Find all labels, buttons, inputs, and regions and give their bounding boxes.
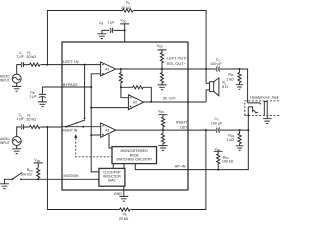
wire left input: [17, 65, 101, 75]
switch right input mux: [62, 126, 101, 128]
rail bypass vertical: [91, 87, 99, 172]
capacitor CB bypass: [39, 94, 46, 97]
speaker: [206, 69, 210, 102]
wire LEFT OUT external: [188, 69, 248, 103]
svg-text:A2: A2: [133, 100, 137, 104]
svg-text:20 kΩ: 20 kΩ: [27, 55, 37, 59]
svg-text:1 kΩ: 1 kΩ: [226, 138, 234, 142]
headphone jack dashed box: [245, 101, 280, 116]
audio input source right: [12, 137, 21, 146]
op-amp A1: [101, 62, 116, 76]
resistor Ri left: [30, 63, 41, 66]
ground RPL: [236, 85, 243, 90]
svg-text:100 kΩ: 100 kΩ: [20, 173, 32, 177]
svg-text:BYPASS: BYPASS: [63, 82, 78, 87]
svg-text:20 kΩ: 20 kΩ: [121, 6, 131, 10]
wire A2 plus input: [91, 107, 128, 109]
capacitor CO left: [217, 66, 220, 71]
wire HP-IN external with pull-up: [188, 107, 248, 170]
wire bottom feedback right channel: [47, 127, 206, 210]
box MONO/STEREO MODE SWITCHING CIRCUITRY: [112, 147, 157, 164]
svg-text:20 kΩ: 20 kΩ: [119, 217, 129, 221]
svg-text:CB: CB: [99, 21, 104, 26]
wire A3 mode control: [109, 134, 112, 148]
ground divider right: [159, 146, 168, 151]
svg-text:1 µF: 1 µF: [17, 117, 25, 121]
svg-text:INPUT: INPUT: [0, 78, 10, 82]
ground shutdown: [0, 184, 9, 189]
svg-text:BTL OUT−: BTL OUT−: [167, 61, 186, 66]
wire right input: [17, 127, 62, 137]
resistor Rf bottom: [120, 208, 131, 211]
switch shutdown: [21, 178, 62, 180]
svg-text:1 µF: 1 µF: [29, 95, 37, 99]
svg-text:BTL OUT+: BTL OUT+: [163, 95, 176, 100]
svg-text:HP–IN: HP–IN: [175, 164, 186, 169]
svg-text:OUT: OUT: [180, 124, 187, 129]
wire A2 minus input: [121, 87, 128, 97]
resistor RPR 1k: [239, 129, 241, 131]
svg-text:1 µF: 1 µF: [107, 21, 115, 25]
wire connectors between mode box and bias box: [113, 164, 124, 169]
svg-text:20 kΩ: 20 kΩ: [27, 118, 37, 122]
arrowhead control: [74, 134, 77, 138]
svg-text:VDD: VDD: [157, 44, 163, 49]
wire BYPASS: [62, 86, 91, 88]
wire BTL OUT+ external: [188, 101, 206, 103]
svg-text:LEFT IN: LEFT IN: [63, 59, 79, 64]
wire A2 output BTL OUT+: [144, 101, 188, 103]
svg-text:1 µF: 1 µF: [17, 55, 25, 59]
svg-text:SWITCHING CIRCUITRY: SWITCHING CIRCUITRY: [116, 158, 153, 162]
wire SHUTDOWN internal: [62, 178, 99, 180]
wire A1 plus input from rail: [91, 74, 100, 87]
svg-text:1 kΩ: 1 kΩ: [226, 78, 234, 82]
svg-text:100 µF: 100 µF: [210, 62, 222, 66]
ground RPR: [236, 146, 243, 151]
ground below left source: [12, 83, 21, 91]
svg-text:Headphone Jack: Headphone Jack: [250, 96, 279, 100]
resistor RPL 1k: [239, 68, 241, 70]
svg-text:100 µF: 100 µF: [211, 121, 223, 125]
resistor A1 feedback vertical: [119, 69, 122, 87]
wire A3 output RIGHT OUT: [116, 129, 188, 131]
capacitor Ci left: [21, 62, 24, 67]
wire HP-IN internal: [135, 164, 188, 170]
svg-text:INPUT: INPUT: [0, 141, 10, 145]
dashed control line to mode switch: [76, 138, 112, 157]
IC box outline: [62, 42, 188, 190]
ground bypass cap: [38, 102, 47, 107]
ground below right source: [12, 146, 21, 154]
op-amp A2: [128, 95, 143, 110]
ground divider left: [158, 85, 167, 90]
wire A1 output to LEFT OUT: [116, 68, 188, 70]
capacitor Ci right: [21, 125, 24, 130]
resistor Rf top: [123, 9, 134, 12]
node left input junction: [46, 64, 48, 66]
svg-text:8 Ω: 8 Ω: [222, 85, 228, 89]
node right input junction: [46, 126, 48, 128]
svg-text:RIGHT IN: RIGHT IN: [62, 127, 77, 132]
ground GND pin: [119, 196, 128, 201]
audio input source left: [12, 74, 21, 83]
svg-text:BIAS: BIAS: [108, 179, 115, 183]
svg-text:SHUTDOWN: SHUTDOWN: [63, 173, 78, 178]
ground below CB: [97, 30, 106, 38]
wire mono tap from left input: [84, 65, 86, 119]
wire RIGHT OUT external: [188, 129, 248, 131]
jack tip contact: [248, 103, 261, 104]
op-amp A3: [101, 123, 116, 137]
wire top feedback left channel: [47, 11, 206, 70]
wire A3 plus input: [91, 134, 101, 136]
svg-text:100 kΩ: 100 kΩ: [222, 160, 234, 164]
svg-text:GND: GND: [114, 192, 123, 196]
ground jack: [263, 119, 272, 124]
wire GND pin: [123, 186, 125, 196]
jack ring contact: [248, 107, 258, 113]
wire bypass external: [42, 87, 62, 102]
resistor Ri right: [30, 125, 41, 128]
capacitor CO right: [217, 128, 220, 133]
svg-text:A1: A1: [105, 67, 109, 71]
resistor A2 feedback horizontal: [121, 86, 151, 102]
box CLICK/POP REDUCTION BIAS: [99, 168, 125, 186]
wire to ground shutdown: [5, 179, 13, 184]
jack plug sleeve: [264, 101, 267, 118]
capacitor CB top: [102, 28, 125, 33]
svg-text:A3: A3: [105, 128, 109, 132]
